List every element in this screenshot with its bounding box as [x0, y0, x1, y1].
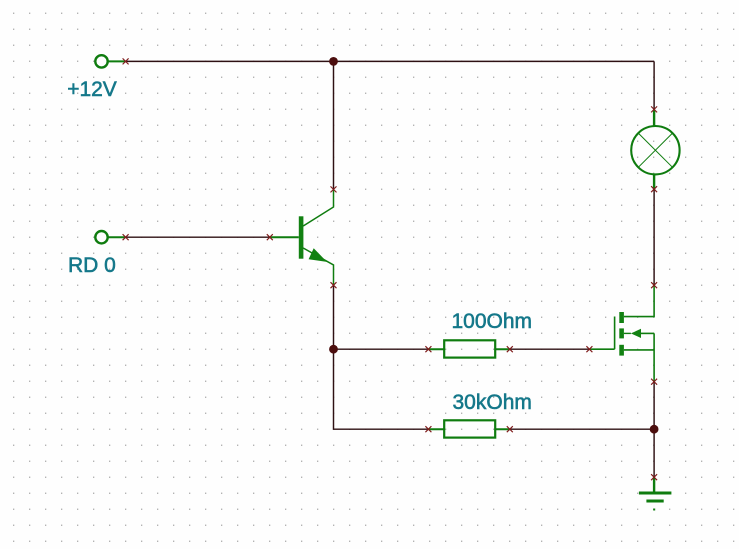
wire node A to 100Ohm left: [334, 348, 429, 350]
pin marker Q1 emitter: [331, 282, 337, 288]
pin marker 30kOhm left: [425, 426, 431, 432]
wire MOSFET source to node B vertical: [653, 382, 655, 430]
pin marker lamp bottom: [651, 186, 657, 192]
wire base input horizontal: [126, 236, 270, 238]
wire node A down and to 30kOhm left: [334, 349, 429, 429]
wire +12V rail horizontal: [126, 60, 655, 62]
transistor Q1 NPN: [270, 190, 334, 285]
resistor 100Ohm: [428, 340, 509, 357]
wire lamp to MOSFET drain vertical: [653, 189, 655, 285]
terminal RD 0: [95, 231, 125, 243]
wire node B to ground vertical: [653, 429, 655, 477]
terminal +12V: [95, 55, 125, 67]
pin marker 100Ohm right: [507, 346, 513, 352]
junction node A: [329, 345, 338, 354]
wire 30kOhm right to node B: [510, 428, 654, 430]
svg-text:RD 0: RD 0: [68, 254, 116, 277]
pin marker 30kOhm right: [507, 426, 513, 432]
junction top rail: [329, 57, 338, 66]
pin marker MOSFET drain: [651, 282, 657, 288]
pin marker MOSFET gate: [586, 346, 592, 352]
svg-text:100Ohm: 100Ohm: [452, 310, 533, 333]
resistor 30kOhm: [428, 420, 509, 437]
ground: [639, 477, 672, 510]
wire 100Ohm right to gate: [510, 348, 590, 350]
pin marker MOSFET source: [651, 379, 657, 385]
wire lamp feed vertical: [653, 61, 655, 109]
pin marker 100Ohm left: [425, 346, 431, 352]
pin marker at +12V terminal: [123, 58, 129, 64]
svg-text:30kOhm: 30kOhm: [453, 391, 532, 414]
lamp LP1: [631, 110, 679, 190]
wire emitter to node A vertical: [333, 285, 335, 349]
wire collector riser vertical: [333, 61, 335, 189]
pin marker Q1 collector: [331, 186, 337, 192]
pin marker at RD 0 terminal: [123, 234, 129, 240]
junction node B: [650, 425, 659, 434]
svg-text:+12V: +12V: [67, 78, 117, 101]
pin marker ground: [651, 474, 657, 480]
pin marker Q1 base: [267, 234, 273, 240]
MOSFET Q2 N-channel: [589, 285, 654, 381]
pin marker lamp top: [651, 106, 657, 112]
